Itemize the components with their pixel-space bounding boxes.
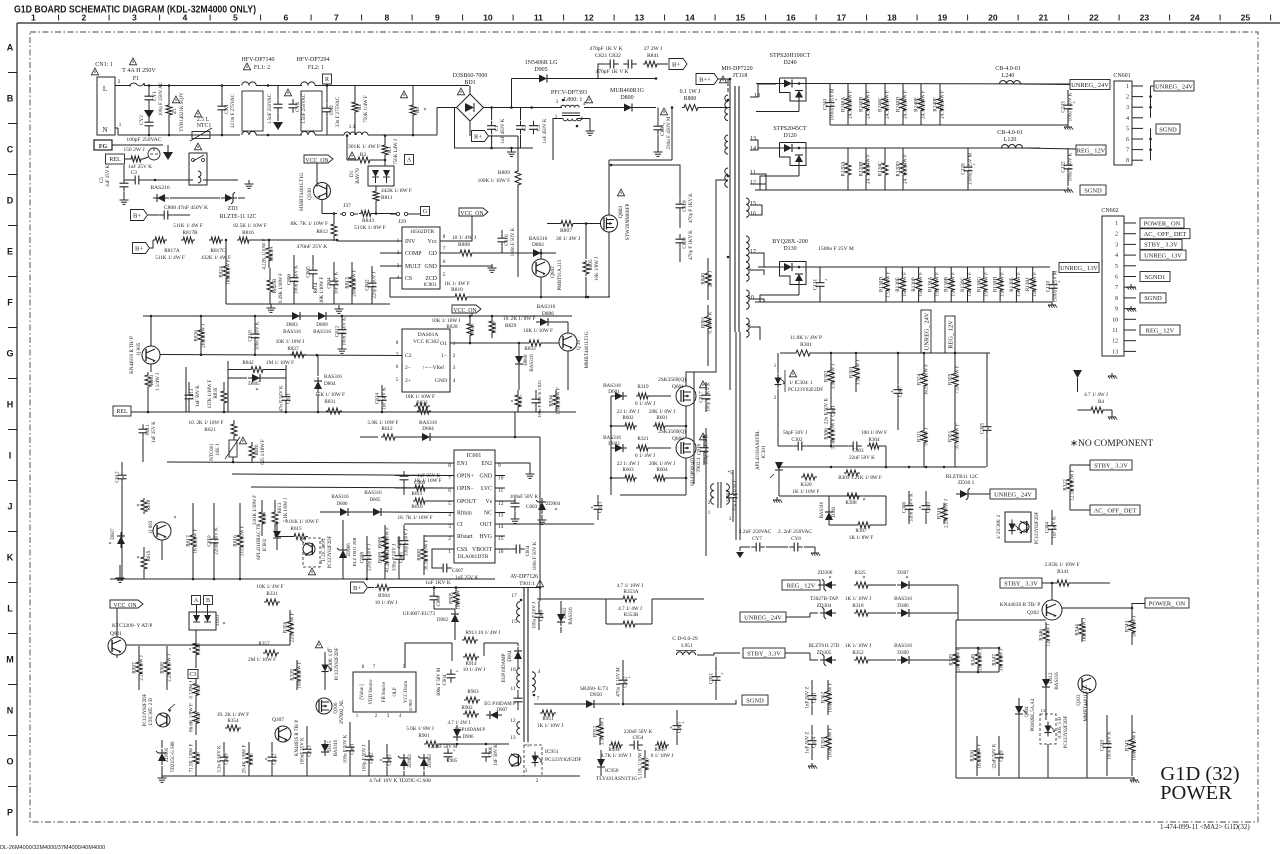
svg-text:R609: R609 bbox=[378, 551, 384, 563]
svg-text:Cf: Cf bbox=[457, 521, 463, 528]
svg-text:ZD305: ZD305 bbox=[817, 650, 832, 656]
net REG_12V bbox=[1076, 145, 1106, 155]
wire sense node bbox=[225, 239, 339, 242]
resistor R356 bbox=[283, 610, 296, 645]
zener ZD900 bbox=[156, 740, 176, 776]
capacitor C320 bbox=[1100, 715, 1113, 776]
svg-text:C607: C607 bbox=[452, 568, 464, 574]
svg-text:C613: C613 bbox=[598, 501, 604, 513]
svg-text:442K 1/ 8W F: 442K 1/ 8W F bbox=[381, 188, 412, 194]
ground gd bbox=[440, 264, 497, 272]
capacitor C804 bbox=[327, 262, 340, 304]
resistor R604 bbox=[649, 461, 675, 481]
svg-text:B++: B++ bbox=[699, 76, 711, 83]
svg-text:BAS316: BAS316 bbox=[820, 501, 825, 518]
svg-text:27 2W J: 27 2W J bbox=[709, 271, 714, 288]
svg-text:BAS316: BAS316 bbox=[537, 304, 556, 310]
svg-text:EGP10DAMP: EGP10DAMP bbox=[502, 653, 507, 682]
svg-text:R357: R357 bbox=[258, 641, 270, 647]
svg-text:MUR460R1G: MUR460R1G bbox=[610, 88, 645, 94]
capacitor C952 bbox=[617, 660, 631, 704]
svg-text:R803: R803 bbox=[150, 374, 155, 385]
capacitor C130 bbox=[1046, 270, 1061, 303]
wire 13V rail bbox=[755, 267, 1052, 302]
svg-text:*: * bbox=[555, 508, 558, 514]
capacitor C605 bbox=[393, 536, 405, 579]
wire aux rail en1 bbox=[167, 461, 446, 464]
svg-text:BAS316: BAS316 bbox=[894, 596, 912, 602]
svg-text:C901: C901 bbox=[350, 743, 356, 755]
svg-text:Q601: Q601 bbox=[672, 384, 684, 390]
svg-text:330p F 50V J: 330p F 50V J bbox=[405, 529, 410, 556]
resistor R810 bbox=[444, 281, 470, 300]
resistor R320 bbox=[792, 474, 819, 495]
svg-text:2.2K 1/8W J: 2.2K 1/8W J bbox=[140, 655, 145, 680]
svg-text:C301: C301 bbox=[831, 405, 837, 417]
wire bl main bbox=[126, 644, 290, 647]
transistor Q302 bbox=[1000, 582, 1062, 620]
svg-text:IC306: 1 Đ: IC306: 1 Đ bbox=[329, 649, 334, 671]
resistor R817B bbox=[181, 237, 231, 261]
ground c801 bbox=[654, 148, 663, 156]
svg-text:R840: R840 bbox=[701, 273, 707, 285]
svg-text:0.1 1W J: 0.1 1W J bbox=[680, 89, 701, 95]
svg-text:R349: R349 bbox=[949, 654, 955, 666]
diode D907 bbox=[484, 702, 516, 719]
net label VCC_ON capsule bbox=[452, 305, 481, 316]
wire stby net bbox=[1069, 505, 1071, 510]
svg-text:R842: R842 bbox=[242, 360, 254, 366]
resistor R615 bbox=[275, 519, 319, 540]
svg-text:R815A: R815A bbox=[269, 246, 275, 261]
svg-text:NTC1: NTC1 bbox=[197, 123, 212, 129]
svg-text:D950: D950 bbox=[590, 692, 602, 698]
thyristor Q304 bbox=[1015, 698, 1036, 731]
svg-text:R835: R835 bbox=[518, 395, 524, 407]
svg-text:Q802: Q802 bbox=[550, 266, 556, 278]
capacitor C819 bbox=[676, 170, 695, 228]
net label VCC_ON bl bbox=[110, 600, 143, 609]
svg-text:4.7uF 10V K TDZ9C-G S08: 4.7uF 10V K TDZ9C-G S08 bbox=[369, 778, 431, 784]
svg-text:C307: C307 bbox=[898, 385, 904, 397]
svg-text:OUT: OUT bbox=[480, 522, 492, 528]
svg-text:VBOOT: VBOOT bbox=[472, 547, 492, 553]
svg-text:24.3K 1/4W F: 24.3K 1/4W F bbox=[904, 90, 909, 119]
svg-text:511K 1/ 4W F: 511K 1/ 4W F bbox=[155, 255, 185, 261]
svg-text:Q602: Q602 bbox=[672, 436, 684, 442]
svg-text:*: * bbox=[863, 498, 866, 504]
svg-text:CY2: CY2 bbox=[139, 115, 145, 125]
svg-text:R130E: R130E bbox=[895, 277, 901, 292]
svg-text:R616: R616 bbox=[233, 535, 239, 547]
svg-text:5: 5 bbox=[1115, 264, 1118, 270]
svg-text:T 4A H 250V: T 4A H 250V bbox=[122, 67, 156, 74]
svg-text:R347: R347 bbox=[992, 654, 998, 666]
svg-text:100 1/ 8W F: 100 1/ 8W F bbox=[861, 430, 887, 436]
svg-text:C612: C612 bbox=[115, 471, 121, 483]
capacitor C308 bbox=[533, 601, 545, 630]
capacitor C311 bbox=[806, 680, 818, 715]
capacitor C313 bbox=[301, 726, 313, 776]
svg-text:OLP: OLP bbox=[393, 687, 398, 696]
capacitor C812 bbox=[335, 316, 348, 353]
svg-text:C819: C819 bbox=[682, 200, 688, 212]
svg-text:8: 8 bbox=[443, 234, 446, 240]
svg-text:100n F 50V K: 100n F 50V K bbox=[343, 317, 348, 346]
svg-text:2: 2 bbox=[1115, 232, 1118, 238]
svg-text:1500u F 25V M: 1500u F 25V M bbox=[818, 246, 854, 252]
svg-text:0 1/ 10W J: 0 1/ 10W J bbox=[651, 753, 674, 759]
svg-text:ZD904: ZD904 bbox=[546, 502, 561, 507]
svg-text:D805: D805 bbox=[248, 381, 260, 387]
svg-text:HFV-DP7140: HFV-DP7140 bbox=[241, 57, 274, 63]
wire q601 drain bbox=[686, 372, 694, 386]
svg-text:R609: R609 bbox=[378, 536, 384, 548]
wire d905 feed bbox=[511, 79, 513, 108]
optocoupler IC304 LED bbox=[774, 353, 824, 446]
svg-text:3.01K 1/10W F: 3.01K 1/10W F bbox=[241, 525, 246, 556]
controller IC902 bbox=[353, 665, 416, 719]
ground rc bbox=[1130, 777, 1139, 783]
svg-text:15K 1/ 10W F: 15K 1/ 10W F bbox=[315, 392, 345, 398]
svg-text:C810: C810 bbox=[248, 330, 254, 342]
capacitor CY2 bbox=[139, 115, 154, 135]
svg-text:9: 9 bbox=[748, 323, 751, 329]
jumper J37 bbox=[340, 203, 358, 216]
sheet number text bbox=[1160, 823, 1250, 831]
svg-text:FL2: 1: FL2: 1 bbox=[308, 65, 324, 71]
svg-text:1K 1/8W J: 1K 1/8W J bbox=[1133, 616, 1138, 638]
svg-text:BYQ28X -200: BYQ28X -200 bbox=[772, 239, 808, 245]
svg-text:1nF 50V K: 1nF 50V K bbox=[494, 744, 499, 766]
svg-text:150 2W J: 150 2W J bbox=[123, 147, 145, 153]
resistor R321 bbox=[635, 436, 671, 459]
resistor R613 bbox=[272, 498, 289, 536]
svg-text:C311: C311 bbox=[812, 692, 818, 703]
svg-text:6: 6 bbox=[1115, 275, 1118, 281]
resistor R811 bbox=[373, 188, 412, 215]
svg-text:R343: R343 bbox=[1125, 620, 1131, 632]
svg-text:CN1: 1: CN1: 1 bbox=[95, 62, 113, 68]
svg-text:R130D: R130D bbox=[879, 277, 885, 292]
svg-text:4: 4 bbox=[538, 669, 541, 675]
wire rc trio bottoms bbox=[956, 671, 999, 674]
resistor R905 bbox=[449, 586, 462, 609]
transistor Q805 bbox=[130, 317, 160, 374]
connector CN601 bbox=[1113, 73, 1143, 165]
optocoupler IC305-1 bbox=[1040, 708, 1069, 748]
wire PFC drain bbox=[610, 164, 680, 170]
svg-text:R353A: R353A bbox=[624, 589, 639, 595]
svg-text:BAS316: BAS316 bbox=[283, 329, 301, 335]
svg-text:EN2: EN2 bbox=[481, 461, 492, 467]
svg-text:R829: R829 bbox=[505, 323, 517, 329]
capacitor C303 bbox=[848, 442, 875, 462]
resistor R324 bbox=[917, 353, 930, 406]
capacitor C953p bbox=[514, 690, 523, 710]
svg-text:31.6K 1/10W F: 31.6K 1/10W F bbox=[832, 418, 837, 449]
svg-text:R602: R602 bbox=[622, 415, 634, 421]
svg-text:D306: D306 bbox=[897, 603, 909, 609]
diode D606 bbox=[320, 495, 369, 516]
svg-text:CB-4.0-01: CB-4.0-01 bbox=[995, 66, 1021, 72]
svg-text:BAS316: BAS316 bbox=[331, 495, 349, 500]
svg-text:D3SB60-7000: D3SB60-7000 bbox=[453, 73, 488, 79]
svg-text:0.13 4W K: 0.13 4W K bbox=[709, 311, 714, 333]
capacitor C954 bbox=[624, 729, 653, 750]
svg-text:G: G bbox=[6, 349, 13, 359]
ground R4 bottom bbox=[1108, 414, 1117, 420]
svg-text:M: M bbox=[6, 655, 14, 665]
net label VCC_ON ic801 bbox=[459, 208, 488, 217]
svg-text:C3: C3 bbox=[189, 672, 196, 678]
diode D602 bbox=[603, 435, 627, 452]
svg-text:R321: R321 bbox=[637, 436, 649, 442]
svg-text:T901:1: T901:1 bbox=[519, 581, 535, 587]
capacitor C3 bbox=[128, 164, 152, 185]
svg-text:BAS316: BAS316 bbox=[334, 739, 339, 756]
capacitor C305 bbox=[980, 390, 993, 467]
svg-text:R620: R620 bbox=[255, 444, 260, 455]
svg-text:12.1K 1/10W F: 12.1K 1/10W F bbox=[1071, 469, 1076, 500]
resistor R609b bbox=[378, 536, 391, 579]
svg-text:STPS2045CT: STPS2045CT bbox=[773, 126, 807, 132]
svg-text:10K 1/ 4W F: 10K 1/ 4W F bbox=[256, 584, 283, 590]
svg-text:R322: R322 bbox=[1063, 479, 1069, 491]
transistor Q802 bbox=[532, 252, 563, 299]
ground r842 box bbox=[0, 0, 1, 1]
svg-text:15: 15 bbox=[736, 13, 746, 23]
capacitor C307 bbox=[892, 353, 904, 430]
svg-text:470u F 10V M: 470u F 10V M bbox=[617, 667, 622, 697]
wire d312 chain bbox=[1045, 648, 1047, 720]
svg-text:R324: R324 bbox=[917, 373, 923, 385]
svg-text:R240B: R240B bbox=[859, 97, 865, 112]
label 100pF 250VAC bbox=[126, 137, 161, 143]
svg-text:21: 21 bbox=[1039, 13, 1049, 23]
resistor R827 bbox=[276, 339, 306, 358]
capacitor C814 bbox=[375, 385, 388, 412]
svg-text:D905: D905 bbox=[534, 67, 547, 73]
node FG bbox=[94, 140, 163, 150]
capacitor C312 bbox=[266, 742, 278, 776]
diode arrow cy6 bbox=[273, 122, 283, 130]
svg-text:100n F 50V K: 100n F 50V K bbox=[295, 265, 300, 294]
svg-text:0 1/ 4W J: 0 1/ 4W J bbox=[635, 453, 655, 459]
svg-text:POWER: POWER bbox=[1160, 782, 1232, 804]
svg-text:C131: C131 bbox=[813, 278, 819, 290]
svg-text:C313: C313 bbox=[307, 745, 313, 757]
svg-text:R817A: R817A bbox=[164, 248, 180, 254]
inductor L1 bbox=[340, 124, 437, 135]
resistor R840 bbox=[701, 258, 714, 300]
svg-text:10: 10 bbox=[510, 667, 516, 673]
svg-text:MMBT4401LT1G: MMBT4401LT1G bbox=[299, 173, 305, 212]
wire zd301 row bbox=[0, 0, 1, 1]
svg-text:17: 17 bbox=[511, 593, 517, 599]
svg-text:D904: D904 bbox=[508, 650, 513, 662]
svg-text:100K 2W J: 100K 2W J bbox=[457, 587, 462, 610]
ground cy7 bbox=[736, 552, 744, 558]
diode D130 bbox=[772, 239, 808, 295]
svg-text:C243: C243 bbox=[1061, 101, 1067, 113]
svg-text:1500u F 25V M: 1500u F 25V M bbox=[1054, 270, 1059, 303]
svg-text:TVR14621K SQJY: TVR14621K SQJY bbox=[180, 92, 185, 132]
svg-text:3: 3 bbox=[453, 365, 456, 371]
svg-text:1-474-099-11 <MA2> G1D(32): 1-474-099-11 <MA2> G1D(32) bbox=[1160, 823, 1250, 831]
svg-text:R305 1.21K 1/ 8W F: R305 1.21K 1/ 8W F bbox=[838, 475, 882, 481]
resistor R913 bbox=[462, 630, 501, 643]
wire rc top bbox=[0, 0, 1, 1]
svg-text:TDZ15C-G S08: TDZ15C-G S08 bbox=[171, 741, 176, 773]
jumper J29 bbox=[390, 212, 420, 225]
resistor R240F bbox=[933, 84, 946, 125]
resistor R803 bbox=[145, 372, 161, 412]
transistor Q330 bbox=[299, 173, 337, 214]
svg-text:12: 12 bbox=[498, 501, 504, 507]
diode D906 bbox=[453, 725, 485, 741]
svg-text:R339: R339 bbox=[290, 669, 296, 681]
capacitor C122 bbox=[1061, 148, 1074, 186]
net STBY_3.3V right bbox=[1070, 460, 1132, 470]
resistor R901 bbox=[406, 726, 440, 747]
svg-text:16: 16 bbox=[786, 13, 796, 23]
svg-text:1/ 2IC306: 2: 1/ 2IC306: 2 bbox=[997, 514, 1002, 539]
svg-text:11: 11 bbox=[1112, 328, 1118, 334]
svg-text:*: * bbox=[109, 542, 112, 548]
connector CN1 bbox=[95, 62, 129, 135]
resistor R325 bbox=[854, 570, 896, 588]
svg-text:D301: D301 bbox=[832, 506, 837, 517]
svg-text:LVC: LVC bbox=[481, 486, 492, 492]
svg-text:1000u F 35V M: 1000u F 35V M bbox=[831, 88, 836, 121]
wire power rail bbox=[1062, 604, 1145, 610]
capacitor C810 bbox=[248, 317, 261, 355]
svg-text:C320: C320 bbox=[1100, 739, 1106, 751]
svg-text:SGND: SGND bbox=[1159, 126, 1177, 133]
svg-text:14: 14 bbox=[685, 13, 695, 23]
capacitor C908 bbox=[430, 586, 456, 609]
svg-text:C608: C608 bbox=[360, 551, 366, 563]
wire feedback mid rail bbox=[777, 466, 986, 469]
svg-text:301K 1/ 4W F: 301K 1/ 4W F bbox=[348, 144, 380, 150]
resistor R346 bbox=[1039, 622, 1052, 648]
svg-text:10: 10 bbox=[748, 295, 754, 301]
capacitor C604 bbox=[505, 541, 538, 570]
svg-text:IC951: IC951 bbox=[545, 749, 559, 755]
svg-text:R603: R603 bbox=[622, 467, 634, 473]
svg-text:R354: R354 bbox=[227, 718, 239, 724]
svg-text:GND: GND bbox=[435, 378, 447, 384]
svg-text:R240E: R240E bbox=[914, 97, 920, 112]
wire VCC rail long bbox=[143, 315, 572, 318]
resistor R319 bbox=[635, 384, 671, 407]
svg-text:4.7 1/ 4W J: 4.7 1/ 4W J bbox=[1084, 392, 1108, 398]
svg-text:D803: D803 bbox=[286, 322, 298, 328]
svg-text:3.3n F 50V K: 3.3n F 50V K bbox=[218, 745, 223, 773]
resistor R829 bbox=[489, 316, 535, 338]
svg-text:R240F: R240F bbox=[933, 97, 939, 111]
svg-text:SGND: SGND bbox=[746, 697, 764, 704]
resistor R318 bbox=[845, 596, 896, 616]
node B+ chain bbox=[133, 240, 154, 254]
svg-text:ZD30 1: ZD30 1 bbox=[958, 480, 975, 486]
svg-text:3.01K 1/ 10W F: 3.01K 1/ 10W F bbox=[285, 519, 319, 525]
svg-text:5.6K 1/ 8W J: 5.6K 1/ 8W J bbox=[406, 726, 434, 732]
vertical net UNREG_24V bbox=[921, 310, 931, 353]
no component note bbox=[1070, 439, 1153, 449]
svg-text:100u F 50V J: 100u F 50V J bbox=[533, 602, 538, 629]
resistor R343 bbox=[1125, 608, 1138, 645]
svg-text:29.4K 1/8W F: 29.4K 1/8W F bbox=[243, 744, 248, 773]
svg-text:18: 18 bbox=[887, 13, 897, 23]
diode D2 bbox=[150, 185, 169, 202]
T118 pin numbers bbox=[727, 93, 760, 329]
svg-text:T2027B-TAP: T2027B-TAP bbox=[810, 596, 838, 602]
shunt IC950 bbox=[596, 750, 638, 782]
ground ic301 bbox=[773, 497, 782, 503]
thermistor NTC601 bbox=[210, 437, 247, 462]
svg-text:2: 2 bbox=[82, 13, 87, 23]
wire zcd rail bbox=[390, 296, 610, 299]
svg-text:STPS20H100CT: STPS20H100CT bbox=[770, 53, 811, 59]
svg-text:R130A: R130A bbox=[927, 277, 933, 292]
diode D306 bbox=[894, 596, 958, 617]
svg-text:R809: R809 bbox=[498, 170, 510, 176]
svg-text:R839: R839 bbox=[214, 387, 219, 398]
resistor R809 bbox=[478, 136, 521, 277]
wire rc diode column bbox=[957, 585, 959, 620]
svg-text:REG_ 12V: REG_ 12V bbox=[1077, 147, 1106, 154]
resistor R341 bbox=[1045, 562, 1110, 586]
svg-text:750K 1/4W F: 750K 1/4W F bbox=[364, 95, 369, 123]
resistor R120D bbox=[896, 148, 909, 190]
svg-text:C319: C319 bbox=[999, 750, 1005, 762]
svg-text:9: 9 bbox=[435, 13, 440, 23]
svg-text:R356: R356 bbox=[283, 621, 289, 633]
svg-text:220K 1/10W F: 220K 1/10W F bbox=[291, 612, 296, 642]
capacitor C302 bbox=[778, 430, 848, 451]
svg-text:R306: R306 bbox=[824, 428, 830, 440]
resistor R812 bbox=[291, 212, 338, 241]
svg-text:R3: R3 bbox=[387, 147, 393, 153]
capacitor C805 bbox=[306, 255, 318, 289]
resistor R359 bbox=[948, 353, 961, 406]
svg-text:Z1: Z1 bbox=[172, 108, 178, 114]
svg-text:30 1/ 4W J: 30 1/ 4W J bbox=[556, 236, 581, 242]
svg-text:D907: D907 bbox=[496, 708, 508, 713]
resistor R816 bbox=[237, 237, 251, 243]
svg-text:N: N bbox=[7, 706, 14, 716]
wire 24V return bbox=[830, 124, 960, 126]
svg-text:R904: R904 bbox=[378, 593, 390, 599]
svg-text:AV-DP7126: AV-DP7126 bbox=[510, 574, 538, 580]
svg-text:100u F 50V K: 100u F 50V K bbox=[1069, 92, 1074, 121]
svg-text:15: 15 bbox=[511, 619, 517, 625]
node B bl bbox=[204, 596, 213, 605]
ground bridge bbox=[507, 148, 516, 156]
svg-text:D302: D302 bbox=[563, 607, 568, 619]
svg-text:1: 1 bbox=[119, 122, 122, 128]
resistor R304 bbox=[861, 430, 887, 467]
svg-text:CY7: CY7 bbox=[752, 536, 762, 542]
net UNREG_13V cn602 bbox=[1140, 250, 1186, 260]
svg-text:10K 1/10W F: 10K 1/10W F bbox=[557, 387, 562, 415]
svg-text:NC: NC bbox=[484, 511, 492, 517]
diode D604 bbox=[418, 420, 540, 441]
wire 24V rail bbox=[756, 84, 1070, 112]
wire ic302 bottom bbox=[131, 411, 576, 414]
